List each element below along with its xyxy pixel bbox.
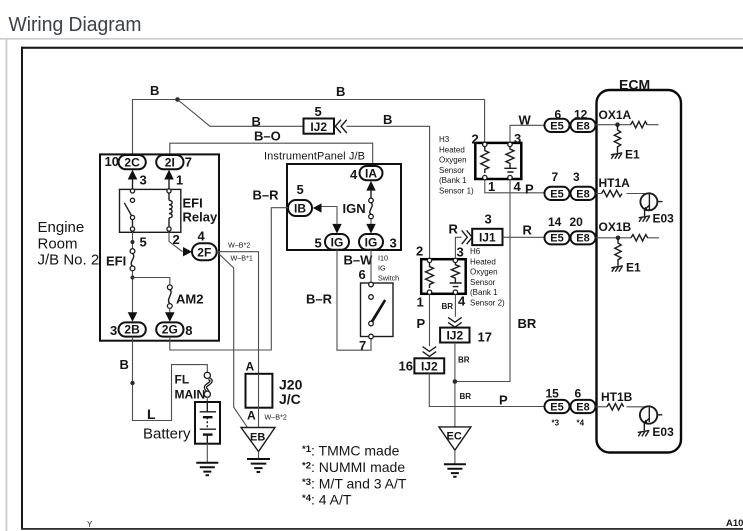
svg-text:2C: 2C (124, 155, 140, 169)
svg-text:5: 5 (315, 236, 322, 251)
heater resistor (H6 left) (426, 263, 434, 288)
svg-text:AM2: AM2 (176, 292, 203, 307)
svg-text:A: A (247, 409, 256, 423)
svg-text:EB: EB (250, 432, 265, 444)
connector IG right (359, 234, 383, 250)
node junction dot on B wire (130, 381, 134, 385)
sensing element (H6 right) (451, 263, 459, 280)
connector 2B (119, 322, 146, 336)
arrow into 2B (128, 312, 138, 322)
wire W-B*1 from 2F diagonal down to EB (217, 252, 248, 428)
wire BR from H3 pin4 down (455, 180, 510, 382)
svg-text:H3: H3 (439, 135, 450, 144)
svg-text:Switch: Switch (378, 274, 399, 283)
Engine Room J/B No.2 box (100, 154, 219, 340)
svg-text:P: P (417, 316, 426, 331)
wire HT1A internal (596, 193, 649, 195)
connector 2I (156, 155, 183, 169)
ground E03 (chassis) (639, 216, 651, 222)
svg-text:B–W: B–W (344, 253, 374, 268)
svg-text:Oxygen: Oxygen (470, 268, 498, 277)
svg-text:E1: E1 (626, 261, 641, 275)
svg-text:IA: IA (365, 166, 377, 180)
svg-text:E8: E8 (576, 120, 589, 132)
wire IG right to switch pin6 (370, 250, 372, 282)
svg-text:IJ1: IJ1 (479, 231, 496, 245)
svg-text:BR: BR (518, 316, 537, 331)
svg-text:B: B (150, 83, 159, 98)
svg-text:R: R (523, 223, 533, 238)
wire junction to AM2 fuse (133, 278, 170, 286)
svg-text:3: 3 (485, 212, 492, 227)
wire BR from H6 pin4 down (454, 294, 456, 316)
wire OX1A internal (596, 124, 659, 126)
svg-text:IG: IG (365, 235, 378, 249)
relay EFI Relay box (120, 189, 181, 232)
relay switch blade (124, 203, 132, 217)
transistor Q (HT1A) (640, 193, 657, 210)
svg-text:H6: H6 (470, 247, 481, 256)
wire R from IJ1 to E5 (503, 236, 545, 238)
svg-text:BR: BR (460, 392, 472, 401)
diagram frame bottom edge (21, 528, 743, 530)
svg-text:IG: IG (331, 235, 344, 249)
svg-text:W: W (519, 113, 532, 128)
svg-text:IB: IB (294, 202, 306, 216)
svg-text:2: 2 (173, 232, 180, 247)
arrow into 2C (128, 170, 138, 180)
diagram frame top edge (21, 47, 743, 49)
IJ2 chevrons (335, 120, 347, 133)
svg-text:Engine: Engine (38, 219, 85, 236)
heater resistor (H3 left) (481, 147, 489, 173)
svg-text:W–B*2: W–B*2 (265, 413, 287, 422)
wire EFI fuse to junction (132, 271, 134, 313)
wire B from 2C up and across to H3 pin 2 (133, 100, 485, 156)
ground (EC) (444, 464, 466, 476)
ground (battery) (196, 463, 218, 476)
svg-text:BR: BR (442, 302, 454, 311)
wire P from H3 pin1 to E5 (485, 180, 545, 193)
node junction dot (616, 236, 621, 241)
svg-text:*4: *4 (577, 419, 585, 428)
node junction on B wire (175, 97, 180, 102)
svg-text:14: 14 (548, 215, 562, 229)
svg-text:EC: EC (447, 431, 462, 443)
wire B-R from 2G to IB (170, 208, 288, 350)
connector IA (360, 166, 383, 180)
svg-text:20: 20 (570, 215, 584, 229)
svg-text:Heated: Heated (470, 257, 496, 266)
connector 2F (192, 243, 217, 260)
svg-text:Sensor: Sensor (439, 166, 465, 175)
svg-text:B–O: B–O (254, 129, 281, 144)
ground E1 (chassis) (611, 151, 623, 159)
svg-text:4: 4 (198, 229, 206, 244)
svg-text:BR: BR (458, 356, 470, 365)
arrow into 2G (165, 312, 175, 322)
svg-text:P: P (525, 182, 534, 197)
svg-text:EFI: EFI (106, 254, 126, 269)
svg-text:ECM: ECM (619, 77, 650, 93)
svg-text:2B: 2B (124, 323, 140, 337)
arrow into IB (313, 203, 322, 212)
svg-text:B: B (336, 84, 345, 99)
wire R from H6 pin3 to IJ1 (455, 237, 472, 258)
svg-text:5: 5 (140, 235, 147, 250)
wire HT1B internal (596, 406, 648, 408)
arrow into IG (right) (366, 224, 375, 234)
resistor to E1 (vertical) (614, 125, 620, 151)
svg-text:E8: E8 (576, 188, 589, 200)
resistor OX1A (horizontal) (631, 122, 648, 128)
17 IJ2 chevrons (down) (448, 317, 462, 327)
svg-text:W–B*2: W–B*2 (228, 241, 250, 250)
wire fuse to battery (206, 397, 208, 402)
svg-text:P: P (499, 393, 508, 408)
svg-text:Battery: Battery (143, 426, 191, 443)
svg-text:Heated: Heated (439, 145, 465, 154)
svg-text:*3: M/T and 3 A/T: *3: M/T and 3 A/T (302, 476, 407, 492)
svg-text:1: 1 (488, 179, 495, 194)
svg-text:E1: E1 (625, 148, 640, 162)
svg-text:IJ2: IJ2 (310, 120, 327, 134)
svg-text:W–B*1: W–B*1 (231, 254, 253, 263)
svg-text:*2: NUMMI made: *2: NUMMI made (302, 459, 405, 475)
svg-text:Oxygen: Oxygen (439, 156, 467, 165)
svg-text:6: 6 (575, 387, 582, 401)
svg-text:InstrumentPanel J/B: InstrumentPanel J/B (264, 151, 365, 163)
wire through J20 to EB (258, 374, 260, 428)
svg-text:E03: E03 (652, 425, 674, 439)
wire B branch through junction IJ2 to H6 pin 2 (178, 100, 430, 259)
svg-text:OX1A: OX1A (599, 108, 632, 122)
wire relay to 2F (169, 232, 183, 251)
svg-text:MAIN: MAIN (175, 388, 206, 402)
svg-text:L: L (147, 406, 156, 422)
svg-text:1: 1 (417, 295, 424, 310)
svg-text:B: B (120, 357, 129, 372)
svg-text:R: R (449, 222, 459, 237)
svg-text:2: 2 (472, 132, 479, 147)
wire B from 2B down to FL MAIN (133, 337, 208, 421)
sensing element (H3 right) (506, 147, 514, 165)
wire W-B*2 from 2F to J20 (217, 252, 259, 374)
wire IG(left) up and to IB (322, 207, 338, 225)
ground (EB) (247, 459, 270, 472)
ground E1 (chassis) (611, 264, 623, 272)
svg-text:3: 3 (457, 245, 464, 260)
svg-text:OX1B: OX1B (599, 220, 632, 234)
svg-text:B: B (252, 114, 261, 129)
arrow into IA (366, 181, 375, 191)
resistor HT1A (602, 190, 622, 196)
relay contact circles left leg (130, 189, 134, 193)
junction connector IJ2 (17) (440, 328, 469, 343)
svg-text:7: 7 (552, 170, 559, 184)
svg-text:3: 3 (140, 173, 147, 188)
svg-text:HT1B: HT1B (601, 390, 633, 404)
svg-text:16: 16 (399, 359, 413, 374)
svg-text:E03: E03 (653, 212, 675, 226)
switch I10 IG Switch box (361, 283, 394, 337)
svg-text:IJ2: IJ2 (421, 359, 438, 373)
svg-text:1: 1 (176, 173, 183, 188)
svg-text:7: 7 (185, 155, 192, 170)
svg-text:J/B No. 2: J/B No. 2 (38, 252, 100, 269)
Instrument Panel J/B box (287, 164, 401, 250)
svg-text:4: 4 (350, 167, 358, 182)
resistor OX1B (horizontal) (631, 235, 648, 241)
ground connector EB triangle (241, 428, 275, 452)
svg-text:*3: *3 (552, 419, 560, 428)
svg-text:2I: 2I (165, 155, 175, 169)
svg-text:(Bank 1: (Bank 1 (439, 176, 467, 185)
svg-text:3: 3 (390, 236, 397, 251)
arrow into 2F (183, 247, 192, 256)
sensor H6 box (421, 259, 466, 294)
svg-text:IG: IG (378, 264, 386, 273)
diagram frame left edge (21, 47, 23, 530)
svg-text:E5: E5 (550, 233, 563, 245)
svg-text:E5: E5 (550, 401, 563, 413)
svg-text:A: A (246, 360, 255, 374)
sensor H3 box (475, 143, 521, 179)
svg-text:IGN: IGN (343, 201, 366, 216)
svg-text:EFI: EFI (183, 196, 203, 211)
svg-text:J/C: J/C (279, 391, 301, 407)
wire B-O from 2I to IA (170, 143, 373, 165)
connector IG left (325, 234, 349, 250)
svg-text:B–R: B–R (253, 188, 280, 203)
transistor Q (HT1B) (640, 406, 657, 423)
junction connector IJ2 (16) (414, 358, 444, 373)
H3 pin circles (483, 142, 487, 146)
svg-text:B: B (383, 112, 392, 127)
svg-text:17: 17 (478, 330, 492, 345)
IJ1 chevrons (462, 230, 473, 244)
svg-text:3: 3 (573, 170, 580, 184)
wire EB to ground (258, 452, 260, 459)
svg-text:10: 10 (105, 154, 119, 169)
svg-text:2G: 2G (162, 323, 178, 337)
16 IJ2 chevrons (down) (423, 347, 437, 357)
svg-text:Sensor 2): Sensor 2) (470, 299, 505, 308)
connector 2C (119, 155, 146, 169)
svg-text:2: 2 (416, 244, 423, 259)
svg-text:3: 3 (110, 323, 117, 338)
junction connector IJ2 (top) (304, 119, 335, 134)
svg-text:Y: Y (87, 520, 93, 529)
node junction dot BR (453, 379, 458, 384)
junction connector IJ1 (472, 229, 502, 245)
wire B-W from IG left to switch pin7 (337, 250, 371, 350)
wire BR from 17 IJ2 down to EC (454, 343, 456, 427)
svg-text:Sensor 1): Sensor 1) (439, 187, 474, 196)
svg-text:7: 7 (359, 338, 366, 353)
resistor HT1B (607, 404, 624, 410)
node junction dot (131, 240, 135, 244)
svg-text:4: 4 (458, 294, 466, 309)
arrow into 2I (164, 170, 174, 180)
node junction dot (615, 122, 620, 127)
svg-text:B–R: B–R (306, 292, 333, 307)
svg-text:A104: A104 (726, 518, 743, 529)
svg-text:5: 5 (297, 182, 304, 197)
svg-text:I10: I10 (378, 254, 388, 263)
svg-text:E5: E5 (550, 188, 563, 200)
svg-text:Room: Room (38, 236, 78, 253)
node junction dot (131, 276, 135, 280)
relay coil right leg (167, 189, 171, 193)
svg-text:E8: E8 (576, 401, 589, 413)
wire from relay to EFI fuse (132, 232, 134, 248)
svg-text:E8: E8 (576, 233, 589, 245)
ground connector EC triangle (439, 427, 471, 450)
svg-text:(Bank 1: (Bank 1 (470, 288, 498, 297)
switch blade (370, 299, 386, 322)
ground E03 (chassis) (638, 430, 650, 436)
left page border rule (6, 38, 8, 531)
title underline rule (0, 38, 743, 40)
svg-text:E5: E5 (550, 120, 563, 132)
svg-text:Relay: Relay (183, 210, 218, 225)
arrow into IG (left) (332, 224, 341, 234)
wire P from H6 pin1 down to 16 IJ2 (429, 294, 431, 346)
wire W from H3 pin3 to E5 (510, 125, 545, 142)
svg-text:2F: 2F (197, 246, 211, 260)
svg-text:Sensor: Sensor (470, 278, 496, 287)
svg-text:8: 8 (185, 323, 192, 338)
wire battery to ground (206, 444, 208, 463)
svg-text:6: 6 (359, 267, 366, 282)
wire EC to ground (454, 450, 456, 464)
ECM box (597, 90, 682, 453)
svg-text:*1: TMMC made: *1: TMMC made (302, 443, 400, 459)
svg-text:3: 3 (514, 131, 521, 146)
svg-text:FL: FL (175, 373, 190, 387)
svg-text:4: 4 (514, 179, 522, 194)
wire OX1B internal (596, 237, 660, 239)
connector IB (288, 200, 312, 216)
svg-text:HT1A: HT1A (599, 176, 631, 190)
wire P from 16 IJ2 to E5 (HT1B) (429, 373, 544, 406)
resistor to E1 (vertical) (615, 238, 621, 264)
svg-text:5: 5 (315, 104, 322, 119)
svg-text:Wiring Diagram: Wiring Diagram (9, 14, 142, 36)
H6 pin circles (427, 258, 431, 262)
svg-text:15: 15 (546, 387, 560, 401)
junction block J20 J/C (246, 374, 273, 408)
svg-text:IJ2: IJ2 (446, 329, 463, 343)
connector 2G (156, 322, 183, 336)
